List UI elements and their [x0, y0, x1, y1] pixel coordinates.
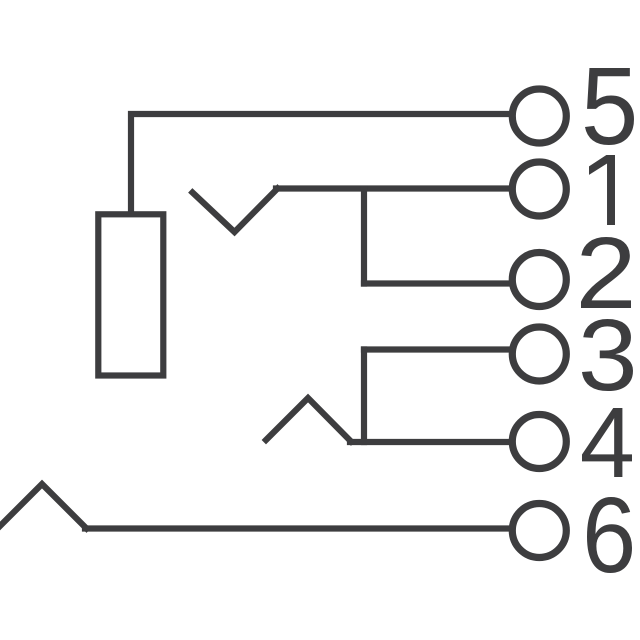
terminal circle pin 2 — [512, 253, 566, 307]
pin number label 2 — [581, 237, 631, 308]
wire: pin 4 lead — [350, 439, 510, 445]
wire: pin 6 lead — [85, 525, 510, 531]
pin number label 4 — [582, 408, 632, 477]
pin number label 1 — [589, 155, 615, 225]
switch lever contact for pin 4 (caret arm) — [266, 398, 351, 442]
wire: junction between pin 3 and pin 4 leads — [361, 350, 367, 443]
wire: pin 3 lead — [364, 346, 510, 352]
jack body (plug sleeve rectangle) — [98, 214, 163, 375]
terminal circle pin 6 — [512, 504, 566, 558]
terminal circle pin 3 — [512, 327, 566, 381]
wire: pin 5 lead from jack body up and right to terminal 5 — [131, 114, 510, 211]
pin number label 3 — [582, 319, 633, 391]
pin number label 6 — [587, 497, 632, 573]
terminal circle pin 1 — [512, 162, 566, 216]
wire: pin 1 lead — [276, 185, 510, 191]
terminal circle pin 5 — [512, 89, 566, 143]
switch lever contact for pin 6 (caret arm) — [0, 484, 87, 529]
wire: pin 2 lead — [364, 280, 510, 286]
pin number label 5 — [585, 68, 634, 145]
switch lever contact for pin 1 (normally-closed arm) — [193, 189, 278, 233]
terminal circle pin 4 — [512, 415, 566, 469]
wire: junction between pin 1 and pin 2 leads — [361, 189, 367, 284]
